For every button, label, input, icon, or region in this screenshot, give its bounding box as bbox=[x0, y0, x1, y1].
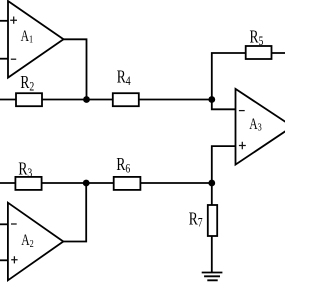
svg-text:R3: R3 bbox=[18, 160, 32, 180]
svg-text:R7: R7 bbox=[189, 210, 203, 230]
svg-text:R4: R4 bbox=[117, 68, 131, 88]
svg-text:R5: R5 bbox=[250, 28, 264, 48]
svg-text:R2: R2 bbox=[20, 73, 34, 93]
svg-text:R6: R6 bbox=[116, 155, 130, 175]
